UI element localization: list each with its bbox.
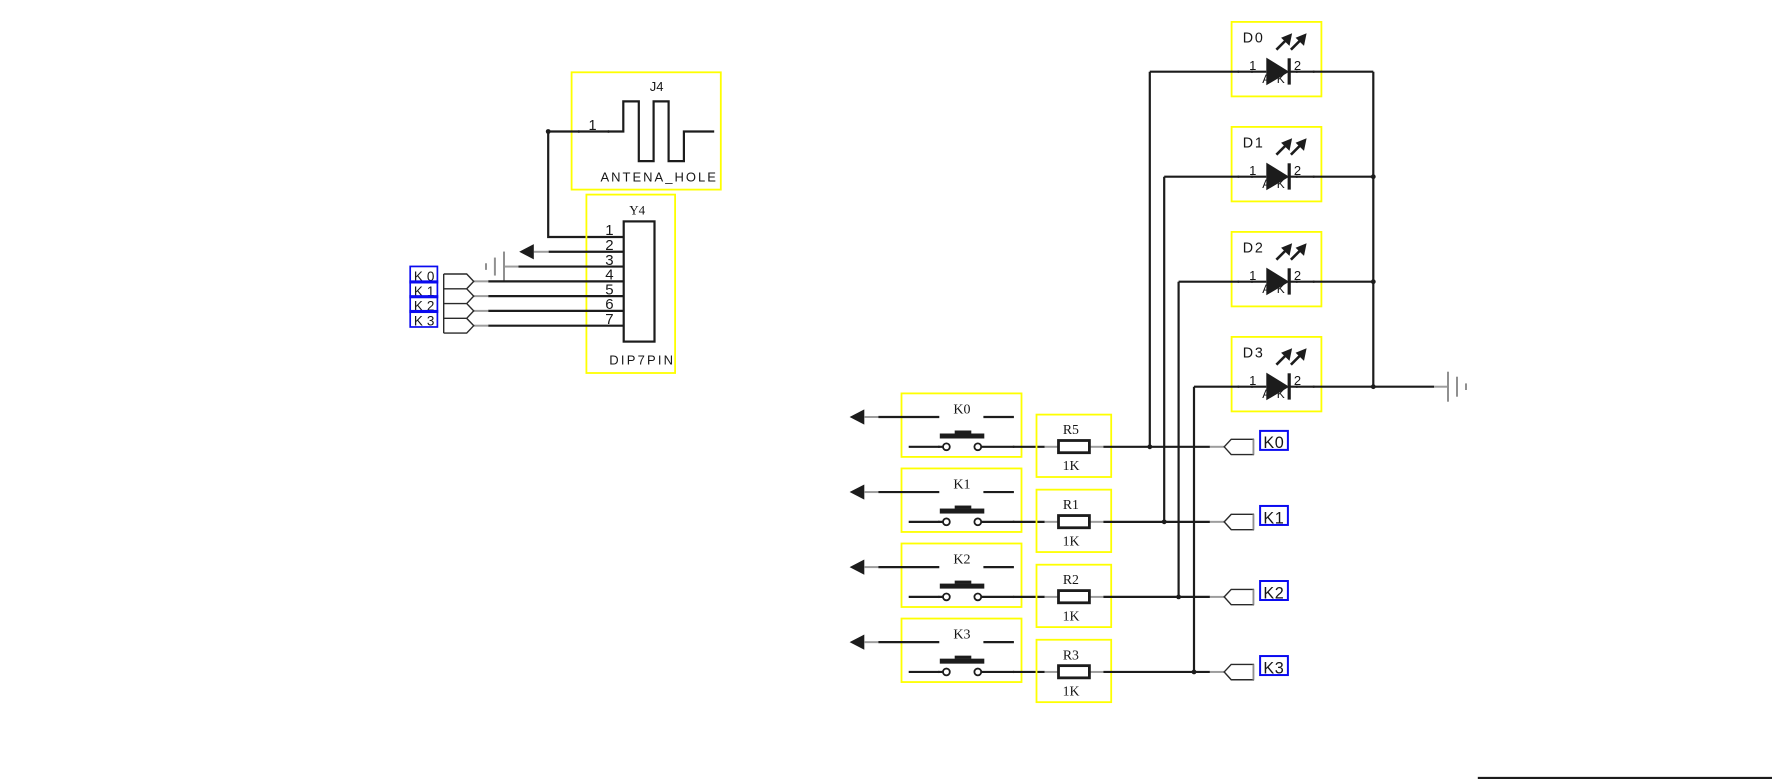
resistor R1 body <box>1059 516 1090 528</box>
svg-text:R1: R1 <box>1063 497 1079 512</box>
wire from LED D2 cathode <box>1289 281 1373 283</box>
connector J4 box <box>572 72 721 189</box>
resistor R5 body <box>1059 441 1090 453</box>
net label box K0 (left) <box>410 266 437 282</box>
wire from J4 pin1 down to Y4 pin 1 <box>548 132 624 238</box>
svg-text:1K: 1K <box>1063 683 1080 698</box>
gray lead at right flag K1 <box>1210 521 1224 523</box>
net label box K0 (right) <box>1260 431 1288 450</box>
button K2 lower-left stub <box>909 596 943 598</box>
button K0 contact circles <box>943 443 950 450</box>
gray lead at arrow K0 <box>864 416 878 418</box>
LED D3 triangle <box>1266 373 1289 401</box>
junction dot LED D3 column <box>1192 670 1197 675</box>
button K1 upper-right stub <box>983 491 1014 493</box>
sheet frame border (bottom-right) <box>1478 777 1772 779</box>
button K1 yellow box <box>902 468 1022 532</box>
net flag (pentagon) K0 right <box>1224 439 1253 454</box>
net label box K3 (right) <box>1260 656 1288 675</box>
LED D3 yellow box <box>1232 337 1322 412</box>
gray lead R2 right <box>1089 596 1103 598</box>
wire Y4 pin 5 to K1 flag <box>488 295 624 297</box>
junction dot D1 row <box>1371 174 1376 179</box>
junction dot LED D0 column <box>1147 444 1152 449</box>
wire from LED D0 cathode <box>1289 71 1373 73</box>
wire: vertical from LED D1 down to resistor row <box>1163 177 1165 522</box>
net arrow pointing left on Y4 pin 2 <box>519 244 534 259</box>
wire arrow to button K2 upper-left pin <box>878 566 939 568</box>
pin end dot on J4 pin lead <box>607 130 610 133</box>
wire arrow to button K0 upper-left pin <box>878 416 939 418</box>
resistor R3 body <box>1059 666 1090 678</box>
LED D0 cathode bar <box>1288 58 1291 84</box>
svg-text:K1: K1 <box>1263 509 1284 527</box>
wire button K1 to resistor R1 <box>981 521 1044 523</box>
gray pin lead pin 3 <box>504 266 519 268</box>
gray lead at right flag K3 <box>1210 671 1224 673</box>
button K2 contact circles <box>943 594 950 601</box>
button K3 lower-left stub <box>909 671 943 673</box>
button K3 contact circles <box>943 669 950 676</box>
wire Y4 pin 4 to K0 flag <box>488 280 624 282</box>
svg-text:K0: K0 <box>953 402 970 417</box>
right vertical bus joining LED cathodes <box>1372 72 1374 387</box>
gray lead R1 left <box>1045 521 1059 523</box>
button K0 lower-left stub <box>909 446 943 448</box>
svg-text:1K: 1K <box>1063 608 1080 623</box>
svg-text:K3: K3 <box>414 313 439 328</box>
wire into LED D2 anode <box>1179 281 1267 283</box>
button K0 upper-right stub <box>983 416 1014 418</box>
wire: vertical from LED D2 down to resistor row <box>1177 282 1179 597</box>
J4 antenna meander symbol <box>548 101 714 161</box>
svg-text:K2: K2 <box>953 552 970 567</box>
button K2 actuator <box>940 584 985 589</box>
junction dot D3 row <box>1371 384 1376 389</box>
wire button K3 to resistor R3 <box>981 671 1044 673</box>
LED D2 cathode bar <box>1288 268 1291 294</box>
wire into LED D1 anode <box>1164 176 1266 178</box>
LED D1 cathode bar <box>1288 163 1291 189</box>
svg-text:K3: K3 <box>1263 659 1284 677</box>
gray lead at right flag K0 <box>1210 446 1224 448</box>
gray lead K0 flag tip <box>474 280 489 282</box>
svg-text:K0: K0 <box>1263 434 1284 452</box>
LED D3 cathode bar <box>1288 373 1291 399</box>
wire arrow to button K1 upper-left pin <box>878 491 939 493</box>
junction dot D2 row <box>1371 279 1376 284</box>
ground symbol (right, LED cathodes) <box>1447 372 1449 402</box>
net label box K3 (left) <box>410 311 437 327</box>
svg-text:ANTENA_HOLE: ANTENA_HOLE <box>601 170 718 185</box>
Y4 component body <box>624 221 655 341</box>
LED D2 emission arrows <box>1276 251 1285 260</box>
wire arrow to button K3 upper-left pin <box>878 641 939 643</box>
wire: vertical from LED D3 down to resistor row <box>1193 387 1195 672</box>
net flag (pentagon) K2 right <box>1224 589 1253 604</box>
svg-text:D0: D0 <box>1243 30 1265 46</box>
gray lead R2 left <box>1045 596 1059 598</box>
wire into LED D3 anode <box>1194 386 1266 388</box>
gray pin lead pin 2 <box>534 251 549 253</box>
wire: vertical from LED D0 down to resistor row <box>1149 72 1151 447</box>
wire R5 to net flag K0 <box>1103 446 1210 448</box>
resistor R2 body <box>1059 591 1090 603</box>
svg-text:1K: 1K <box>1063 458 1080 473</box>
junction dot LED D2 column <box>1176 595 1181 600</box>
gray lead K3 flag tip <box>474 325 489 327</box>
net label box K2 (right) <box>1260 581 1288 600</box>
button K2 yellow box <box>902 544 1022 608</box>
LED D0 triangle <box>1266 58 1289 86</box>
svg-text:Y4: Y4 <box>629 203 645 218</box>
gray lead at arrow K2 <box>864 566 878 568</box>
wire Y4 pin 2 <box>549 251 624 253</box>
net flag (pentagon) K1 right <box>1224 514 1253 529</box>
LED D3 emission arrows <box>1276 356 1285 365</box>
net end dot at J4 wire corner <box>546 129 551 134</box>
svg-text:R5: R5 <box>1063 422 1079 437</box>
gray lead R5 right <box>1089 446 1103 448</box>
net arrow pointing left at button K2 <box>850 560 865 575</box>
button K1 lower-left stub <box>909 521 943 523</box>
svg-text:R3: R3 <box>1063 647 1079 662</box>
resistor R5 yellow box <box>1037 415 1112 477</box>
left K0-K3 connector flag stack <box>444 274 474 333</box>
button K3 yellow box <box>902 619 1022 683</box>
svg-text:K1: K1 <box>953 477 970 492</box>
button K2 upper-right stub <box>983 566 1014 568</box>
gray lead at right flag K2 <box>1210 596 1224 598</box>
pin end dot on J4 net <box>578 130 581 133</box>
LED D0 emission arrows <box>1276 41 1285 50</box>
wire R3 to net flag K3 <box>1103 671 1210 673</box>
LED D1 triangle <box>1266 163 1289 191</box>
svg-text:DIP7PIN: DIP7PIN <box>609 353 675 368</box>
LED D1 yellow box <box>1232 127 1322 201</box>
button K3 upper-right stub <box>983 641 1014 643</box>
button K1 contact circles <box>943 518 950 525</box>
LED D2 triangle <box>1266 268 1289 296</box>
gray lead R3 right <box>1089 671 1103 673</box>
net label box K1 (right) <box>1260 506 1288 525</box>
net arrow pointing left at button K0 <box>850 409 865 424</box>
gray lead to right ground <box>1434 386 1448 388</box>
svg-text:K2: K2 <box>1263 584 1284 602</box>
button K3 actuator <box>940 659 985 664</box>
LED D2 yellow box <box>1232 232 1322 307</box>
wire from LED D3 cathode <box>1289 386 1434 388</box>
gray lead R3 left <box>1045 671 1059 673</box>
gray lead at arrow K3 <box>864 641 878 643</box>
svg-text:R2: R2 <box>1063 572 1079 587</box>
wire R2 to net flag K2 <box>1103 596 1210 598</box>
svg-text:J4: J4 <box>650 79 664 94</box>
LED D0 yellow box <box>1232 22 1322 97</box>
ground symbol (left, at Y4 pin 3) <box>503 252 505 282</box>
svg-text:D2: D2 <box>1243 240 1265 256</box>
wire Y4 pin 6 to K2 flag <box>488 310 624 312</box>
svg-text:K3: K3 <box>953 627 970 642</box>
gray lead at arrow K1 <box>864 491 878 493</box>
gray lead K1 flag tip <box>474 295 489 297</box>
net arrow pointing left at button K1 <box>850 484 865 499</box>
wire button K0 to resistor R5 <box>981 446 1044 448</box>
net arrow pointing left at button K3 <box>850 635 865 650</box>
resistor R3 yellow box <box>1037 640 1112 702</box>
svg-text:D3: D3 <box>1243 345 1265 361</box>
button K0 yellow box <box>902 393 1022 457</box>
net label box K1 (left) <box>410 281 437 297</box>
gray lead K2 flag tip <box>474 310 489 312</box>
crystal/connector Y4 box <box>586 195 675 373</box>
gray lead R5 left <box>1045 446 1059 448</box>
net label box K2 (left) <box>410 296 437 312</box>
wire into LED D0 anode <box>1150 71 1267 73</box>
wire button K2 to resistor R2 <box>981 596 1044 598</box>
net flag (pentagon) K3 right <box>1224 664 1253 679</box>
LED D1 emission arrows <box>1276 146 1285 155</box>
button K1 actuator <box>940 509 985 514</box>
wire R1 to net flag K1 <box>1103 521 1210 523</box>
wire Y4 pin 7 to K3 flag <box>488 325 624 327</box>
svg-text:1K: 1K <box>1063 533 1080 548</box>
resistor R2 yellow box <box>1037 565 1112 627</box>
junction dot LED D1 column <box>1162 519 1167 524</box>
button K0 actuator <box>940 434 985 439</box>
gray lead R1 right <box>1089 521 1103 523</box>
resistor R1 yellow box <box>1037 490 1112 552</box>
wire Y4 pin 3 <box>519 265 624 267</box>
svg-text:D1: D1 <box>1243 135 1265 151</box>
wire from LED D1 cathode <box>1289 176 1373 178</box>
